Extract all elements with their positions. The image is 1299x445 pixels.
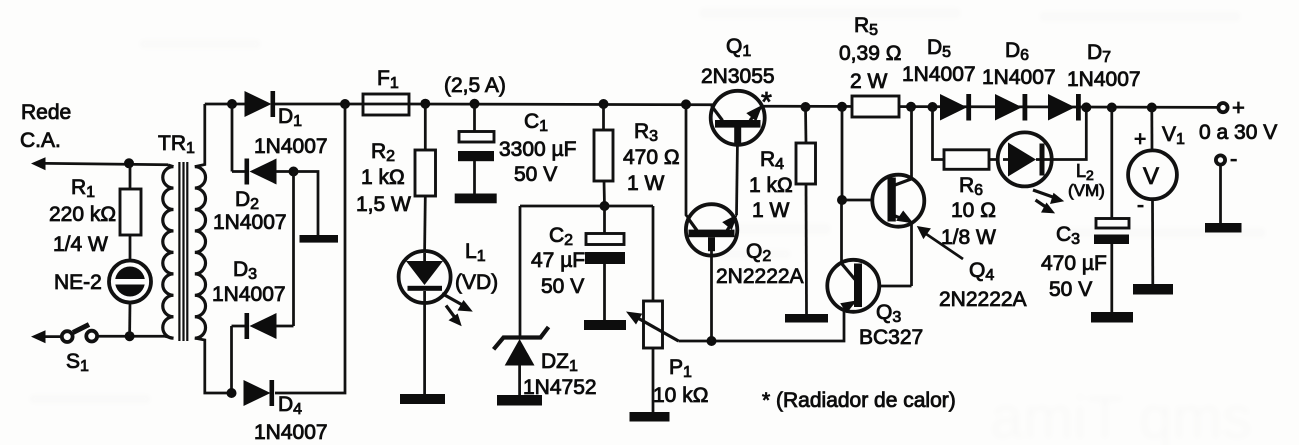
node B: NE-2 bottom junction: [125, 331, 135, 341]
label L1: [455, 240, 498, 294]
resistor R4: [796, 107, 816, 314]
terminal output minus: [1216, 155, 1225, 164]
svg-text:BC327: BC327: [859, 326, 923, 349]
wire: minus terminal to ground: [1219, 165, 1222, 223]
svg-text:NE-2: NE-2: [54, 271, 102, 294]
node C: D1 anode / D2 cathode junction: [227, 99, 237, 109]
label C3: [1041, 223, 1107, 301]
diode D7: [1048, 94, 1081, 121]
svg-text:470 µF: 470 µF: [1041, 252, 1107, 275]
svg-text:D4: D4: [278, 393, 302, 418]
wire: R6 branch down: [933, 107, 945, 160]
wire: top rail left section: [205, 103, 246, 106]
resistor R3: [594, 104, 613, 206]
diode D1: [245, 91, 276, 117]
svg-text:D1: D1: [278, 105, 302, 130]
diode D6: [995, 94, 1027, 121]
svg-text:S1: S1: [66, 350, 89, 375]
svg-text:1/8 W: 1/8 W: [941, 226, 996, 249]
svg-text:1 kΩ: 1 kΩ: [361, 166, 405, 189]
wire: rail Q1 to output: [762, 106, 1219, 107]
wire: secondary bottom to D4: [195, 338, 232, 393]
svg-text:0,39 Ω: 0,39 Ω: [839, 42, 901, 65]
label Rede C.A.: [20, 101, 71, 152]
svg-text:* (Radiador de calor): * (Radiador de calor): [762, 389, 956, 412]
svg-text:F1: F1: [377, 67, 399, 92]
node M: R4 junction: [801, 102, 811, 112]
node J: reference node below R3: [600, 201, 610, 211]
svg-text:1N4007: 1N4007: [902, 63, 976, 86]
svg-text:50 V: 50 V: [541, 275, 584, 298]
label L2: [1068, 161, 1105, 200]
svg-text:R4: R4: [760, 148, 784, 173]
ground P1: [630, 412, 670, 422]
label R6: [941, 174, 996, 249]
node N: Q4 base rail junction: [837, 102, 847, 112]
diode D3: [232, 313, 294, 339]
svg-text:D7: D7: [1087, 41, 1111, 66]
svg-text:(VM): (VM): [1068, 181, 1105, 200]
svg-text:1N4752: 1N4752: [523, 376, 597, 399]
node K: Q2 base junction: [707, 336, 717, 346]
node T: V1 junction: [1147, 103, 1157, 113]
svg-text:1 kΩ: 1 kΩ: [749, 174, 793, 197]
svg-text:R3: R3: [634, 120, 658, 145]
label D6: [982, 39, 1056, 89]
svg-text:L1: L1: [465, 240, 486, 265]
label output: [1199, 95, 1277, 171]
wire: R6 to L2: [989, 158, 998, 161]
svg-text:1 W: 1 W: [627, 172, 665, 195]
zener DZ1: [494, 206, 549, 395]
terminal output plus: [1218, 103, 1227, 112]
neon lamp NE-2: [109, 261, 151, 303]
svg-text:3300 µF: 3300 µF: [499, 138, 576, 161]
wire: rail D1 to F1: [275, 103, 363, 106]
svg-text:1,5 W: 1,5 W: [356, 193, 411, 216]
svg-text:+: +: [1232, 95, 1245, 120]
svg-text:2 W: 2 W: [850, 70, 888, 93]
svg-text:0 a 30 V: 0 a 30 V: [1199, 121, 1277, 144]
ground L1: [400, 394, 445, 404]
wire: D4 cathode vertical to rail: [275, 104, 345, 393]
label P1: [653, 356, 708, 407]
node R: L2 return junction: [1081, 102, 1091, 112]
svg-text:C.A.: C.A.: [20, 129, 61, 152]
svg-text:C1: C1: [524, 110, 548, 135]
label C2: [531, 224, 585, 298]
wire: D3 cathode down to D4 anode: [230, 326, 233, 393]
label D4: [254, 393, 328, 444]
wire: Q4 base vertical: [841, 107, 844, 200]
capacitor C2: [585, 206, 625, 320]
label R2: [356, 140, 411, 216]
voltmeter V1: [1128, 108, 1177, 285]
svg-text:V1: V1: [1162, 123, 1185, 148]
node P: Q4 collector rail junction: [906, 102, 916, 112]
svg-text:10 Ω: 10 Ω: [951, 199, 996, 222]
wire: Q3 collector vertical: [840, 200, 843, 263]
wire: D2 anode down to D3 anode: [292, 172, 295, 327]
svg-text:Q3: Q3: [876, 301, 901, 326]
svg-text:2N2222A: 2N2222A: [716, 265, 804, 288]
svg-text:-: -: [1230, 146, 1237, 171]
svg-text:+: +: [1134, 128, 1146, 151]
svg-text:1/4 W: 1/4 W: [53, 233, 108, 256]
label R1: [49, 176, 116, 256]
svg-text:50 V: 50 V: [514, 163, 557, 186]
node Q: R6 / D5 junction: [928, 102, 938, 112]
label D5: [902, 36, 976, 86]
wire: Q3 base horizontal: [862, 285, 912, 288]
label F1: [377, 67, 506, 97]
diode D4: [244, 380, 275, 406]
svg-text:D6: D6: [1005, 39, 1029, 64]
LED L1 arrows: [442, 294, 473, 327]
wire: D1 anode down to D2 cathode: [231, 104, 234, 172]
LED L2 arrows: [1033, 190, 1064, 213]
svg-text:Q1: Q1: [726, 35, 751, 60]
label R5: [839, 14, 901, 93]
ground C3: [1091, 312, 1133, 323]
label Q3: [859, 301, 923, 349]
wire: junction to bridge ground: [294, 172, 319, 236]
svg-text:1N4007: 1N4007: [254, 135, 328, 158]
svg-text:1N4007: 1N4007: [1067, 68, 1141, 91]
wire: Q4 collector vertical: [910, 107, 913, 179]
label DZ1: [523, 350, 597, 399]
svg-text:R6: R6: [959, 174, 983, 199]
transformer TR1: [163, 162, 206, 341]
wire: wiper line to Q2 base and Q3 emitter: [679, 309, 845, 341]
node S: C3 junction: [1107, 103, 1117, 113]
resistor R6: [944, 150, 989, 170]
label R3: [623, 120, 680, 195]
diode D2: [232, 159, 294, 185]
node D: D4 return junction on rail: [340, 99, 350, 109]
svg-text:1N4007: 1N4007: [254, 421, 328, 444]
label C1: [499, 110, 576, 186]
wire: secondary top to rail: [195, 104, 205, 167]
potentiometer P1: [626, 206, 679, 412]
transistor Q4: [872, 175, 924, 286]
label Q2: [716, 240, 804, 288]
resistor R5: [852, 96, 899, 117]
svg-text:P1: P1: [669, 356, 692, 381]
svg-text:47 µF: 47 µF: [531, 249, 585, 272]
svg-text:D3: D3: [233, 258, 257, 283]
node A: R1 top junction: [124, 158, 134, 168]
wire: rail F1 to Q1: [409, 103, 714, 107]
svg-text:*: *: [761, 86, 772, 117]
svg-text:V: V: [1143, 163, 1159, 190]
diode D5: [940, 94, 971, 121]
wire: reference node horizontal: [520, 205, 653, 208]
svg-text:470 Ω: 470 Ω: [623, 146, 680, 169]
switch S1: [31, 325, 97, 344]
svg-text:D2: D2: [235, 188, 259, 213]
node I: R3 junction: [599, 99, 609, 109]
label R4: [749, 148, 793, 222]
svg-text:(VD): (VD): [455, 271, 498, 294]
svg-text:L2: L2: [1076, 161, 1094, 183]
label D1: [254, 105, 328, 158]
wire: L2 to rail: [1045, 107, 1087, 159]
fuse F1: [363, 94, 409, 115]
label D3: [212, 258, 286, 306]
node F: D4 anode junction: [227, 388, 237, 398]
node G: R2 junction: [420, 99, 430, 109]
svg-text:C2: C2: [549, 224, 573, 249]
resistor R1: [120, 189, 141, 235]
svg-text:220 kΩ: 220 kΩ: [49, 203, 116, 226]
wire: R1 branch vertical: [128, 163, 131, 336]
svg-text:2N2222A: 2N2222A: [939, 288, 1027, 311]
wire: Q4 base horizontal: [842, 199, 888, 202]
svg-text:1N4007: 1N4007: [212, 283, 286, 306]
svg-text:-: -: [1137, 194, 1144, 217]
svg-text:Q4: Q4: [969, 259, 994, 284]
node L: Q2 collector rail junction: [681, 99, 691, 109]
node H: C1 junction: [470, 99, 480, 109]
ground bridge: [300, 235, 339, 243]
node E: D2/D3 anode junction: [289, 167, 299, 177]
svg-text:1 W: 1 W: [752, 199, 790, 222]
svg-text:amiT qms: amiT qms: [990, 384, 1252, 445]
svg-text:TR1: TR1: [158, 132, 195, 157]
svg-text:1N4007: 1N4007: [982, 66, 1056, 89]
svg-text:DZ1: DZ1: [541, 350, 578, 375]
svg-text:(2,5 A): (2,5 A): [444, 74, 506, 97]
svg-text:1N4007: 1N4007: [213, 211, 287, 234]
label Q1: [701, 35, 775, 88]
node O: Q4 base / Q3 collector junction: [837, 195, 847, 205]
LED L2: [998, 132, 1052, 186]
label D2: [213, 188, 287, 234]
wire: AC top line with arrow: [31, 157, 168, 170]
svg-text:C3: C3: [1056, 223, 1080, 248]
transistor Q3: [827, 260, 879, 313]
svg-text:Q2: Q2: [746, 240, 771, 265]
svg-text:D5: D5: [927, 36, 951, 61]
arrow: Q4 pointer: [917, 226, 963, 259]
svg-text:R1: R1: [71, 176, 95, 201]
capacitor C1: [458, 104, 494, 194]
wire: Q2 collector vertical: [686, 104, 689, 218]
resistor R2: [415, 150, 436, 196]
ground output: [1205, 223, 1242, 233]
label D7: [1067, 41, 1141, 91]
svg-text:50 V: 50 V: [1049, 278, 1092, 301]
label V1: [1134, 123, 1185, 217]
svg-text:Rede: Rede: [21, 101, 71, 124]
ground C1: [455, 194, 497, 204]
svg-text:10 kΩ: 10 kΩ: [653, 384, 708, 407]
ground R4: [785, 314, 828, 323]
capacitor C3: [1094, 108, 1129, 313]
svg-text:R2: R2: [371, 140, 395, 165]
svg-text:2N3055: 2N3055: [701, 65, 775, 88]
LED L1: [399, 251, 451, 394]
wire: AC bottom line from switch to transformer: [98, 335, 165, 338]
ground C2: [584, 320, 626, 330]
wire: R2 branch: [423, 104, 426, 251]
ground V1: [1133, 284, 1173, 295]
transistor Q1: [711, 91, 765, 215]
transistor Q2: [686, 204, 738, 341]
label Q4: [939, 259, 1027, 311]
ground DZ1: [497, 395, 542, 406]
